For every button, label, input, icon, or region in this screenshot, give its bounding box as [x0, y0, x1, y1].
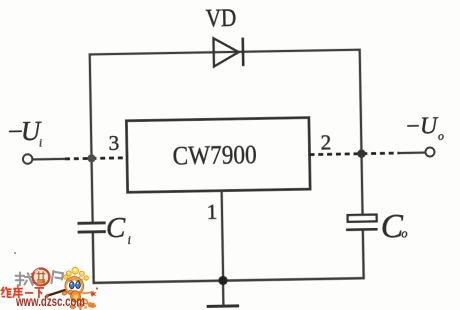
- svg-text:1: 1: [206, 200, 217, 224]
- svg-text:VD: VD: [206, 5, 237, 33]
- svg-text:CW7900: CW7900: [172, 140, 256, 170]
- svg-text:−Ui: −Ui: [6, 116, 42, 150]
- svg-text:3: 3: [108, 131, 119, 155]
- svg-text:2: 2: [320, 130, 331, 154]
- svg-text:www.dzsc.com: www.dzsc.com: [15, 293, 85, 309]
